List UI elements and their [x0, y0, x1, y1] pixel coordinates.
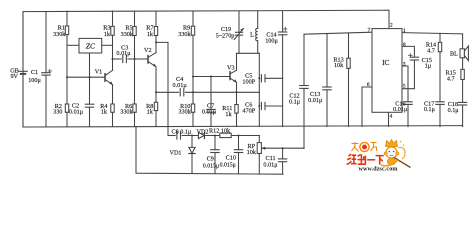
- svg-text:0.01μ: 0.01μ: [263, 162, 278, 169]
- svg-text:9V: 9V: [10, 73, 18, 80]
- resistor R2: [65, 77, 68, 126]
- resistor R7: [154, 11, 157, 53]
- svg-text:100μ: 100μ: [28, 77, 41, 84]
- label R5 330k: [121, 25, 134, 38]
- svg-text:0.01μ: 0.01μ: [173, 82, 188, 89]
- svg-text:V2: V2: [144, 47, 152, 54]
- svg-text:3: 3: [403, 61, 406, 67]
- resistor R14: [438, 33, 441, 101]
- svg-text:V1: V1: [95, 69, 103, 76]
- svg-text:1k: 1k: [225, 111, 232, 118]
- svg-text:1k: 1k: [101, 108, 108, 115]
- capacitor C5: [261, 75, 282, 82]
- svg-text:0.1μ: 0.1μ: [448, 107, 460, 114]
- svg-text:1μ: 1μ: [425, 63, 432, 70]
- IC U1 box: [372, 29, 402, 113]
- label C5 100P: [242, 72, 255, 85]
- resistor R13: [347, 33, 350, 127]
- label C6 470P: [242, 101, 255, 114]
- label C19 5~270p: [216, 26, 235, 39]
- svg-text:VD1: VD1: [170, 149, 182, 156]
- capacitor C6: [261, 102, 282, 109]
- svg-text:330k: 330k: [53, 31, 66, 38]
- label C16 0.01u: [393, 100, 408, 113]
- svg-text:0.01μ: 0.01μ: [308, 97, 323, 104]
- resistor R11: [235, 82, 238, 126]
- capacitor C12: [300, 34, 308, 148]
- label R6 330k: [120, 103, 133, 116]
- label C17 0.1u: [424, 100, 436, 113]
- label R10 330k: [178, 103, 191, 116]
- svg-text:1k: 1k: [147, 108, 154, 115]
- variable capacitor C19: [234, 11, 243, 53]
- label C2 0.01u: [69, 102, 84, 115]
- detector wire C8 VD2 R12: [168, 132, 198, 139]
- wire top supply rail: [23, 10, 389, 127]
- label C13 0.01u: [308, 91, 323, 104]
- label C9 0.015u: [203, 156, 219, 170]
- svg-text:0.015μ: 0.015μ: [203, 163, 219, 169]
- potentiometer RP: [257, 136, 266, 174]
- capacitor C14: [278, 11, 287, 127]
- resistor R9: [191, 11, 194, 77]
- svg-text:330k: 330k: [178, 31, 191, 38]
- resistor R10: [191, 77, 194, 127]
- svg-text:0.01μ: 0.01μ: [116, 50, 131, 57]
- label R11 1k: [222, 105, 232, 118]
- svg-text:C9: C9: [207, 156, 214, 163]
- label C10 0.015u: [220, 155, 236, 169]
- svg-text:0.015μ: 0.015μ: [220, 163, 236, 169]
- svg-text:L: L: [250, 32, 254, 39]
- wire tank bottom node: [237, 52, 260, 54]
- label C7 0.01u: [202, 102, 217, 115]
- capacitor C9: [211, 136, 219, 174]
- transistor V2: [135, 53, 157, 67]
- wire lower detector ground rail: [136, 127, 283, 175]
- svg-text:4: 4: [390, 113, 393, 119]
- svg-text:C8 0.1μ: C8 0.1μ: [172, 129, 193, 136]
- svg-text:100P: 100P: [242, 78, 255, 85]
- capacitor C3: [113, 55, 135, 62]
- svg-text:470P: 470P: [242, 108, 255, 115]
- resistor R8: [154, 67, 157, 127]
- wire RP wiper to C12 line: [266, 147, 304, 149]
- capacitor C10: [234, 136, 242, 174]
- svg-text:1k: 1k: [147, 31, 154, 38]
- resistor R15: [461, 69, 464, 102]
- svg-text:5: 5: [403, 84, 406, 90]
- wire V2 collector branch: [156, 42, 168, 135]
- capacitor C1: [42, 11, 52, 127]
- label R14 4.7: [426, 41, 436, 54]
- svg-text:0.1μ: 0.1μ: [424, 106, 436, 113]
- label C14 100u: [265, 31, 278, 44]
- block ZC: [67, 38, 113, 77]
- resistor R12: [220, 133, 259, 137]
- svg-text:7: 7: [367, 27, 370, 33]
- junction dots: [66, 41, 284, 149]
- label C18 0.1u: [448, 101, 460, 114]
- speaker BL: [460, 34, 468, 70]
- resistor R4: [111, 85, 114, 127]
- svg-text:1: 1: [403, 28, 406, 34]
- svg-text:10k: 10k: [247, 149, 257, 156]
- wire IC pin 5: [402, 60, 414, 89]
- label C3 0.01u: [116, 44, 131, 57]
- wire IC pin 3: [402, 66, 408, 102]
- resistor R3: [111, 11, 114, 70]
- svg-text:1k: 1k: [104, 31, 111, 38]
- svg-text:330k: 330k: [121, 31, 134, 38]
- label R2 330: [53, 103, 62, 116]
- svg-text:2: 2: [390, 22, 393, 28]
- svg-text:4.7: 4.7: [447, 76, 455, 83]
- watermark dzsc logo: [347, 140, 411, 173]
- inductor L: [256, 11, 258, 53]
- wire main ground rail: [23, 126, 463, 127]
- svg-text:C1: C1: [31, 69, 38, 76]
- svg-text:5~270p: 5~270p: [216, 32, 235, 39]
- svg-text:0.01μ: 0.01μ: [393, 106, 408, 113]
- wire IC pin 1 to output: [402, 33, 463, 34]
- label R9 330k: [178, 25, 191, 38]
- svg-text:6: 6: [367, 82, 370, 88]
- transistor V3: [193, 53, 237, 82]
- svg-text:10k: 10k: [334, 62, 344, 69]
- svg-text:C10: C10: [226, 155, 236, 162]
- label GB 9V: [10, 68, 19, 81]
- label R3 1k: [103, 25, 111, 38]
- svg-text:4.7: 4.7: [427, 47, 435, 54]
- svg-text:100μ: 100μ: [265, 37, 278, 44]
- svg-text:IC: IC: [382, 58, 389, 67]
- capacitor C16: [404, 102, 412, 127]
- label R13 10k: [333, 56, 344, 69]
- capacitor C17: [436, 102, 444, 127]
- wire IC pin 8: [402, 46, 414, 57]
- label R15 4.7: [446, 70, 456, 83]
- label R4 1k: [100, 103, 108, 116]
- label C4 0.01u: [173, 76, 188, 89]
- wire feedback node: [258, 53, 260, 126]
- resistor R1: [65, 11, 68, 77]
- svg-text:www.dzsc.com: www.dzsc.com: [358, 166, 397, 172]
- label C1 100u: [28, 69, 41, 84]
- svg-text:330k: 330k: [120, 108, 133, 115]
- svg-text:BL: BL: [450, 50, 458, 57]
- diode VD1: [189, 136, 195, 174]
- resistor R6: [133, 59, 136, 127]
- diode VD2: [198, 132, 219, 138]
- capacitor C11: [278, 148, 286, 173]
- label C11 0.01u: [263, 155, 278, 168]
- svg-text:0.01μ: 0.01μ: [69, 109, 84, 116]
- label R1 330k: [53, 25, 66, 38]
- capacitor C4: [156, 89, 259, 96]
- label R7 1k: [146, 25, 154, 38]
- capacitor C7: [207, 77, 215, 127]
- label C15 1u: [422, 57, 432, 70]
- mascot monkey: [381, 140, 411, 168]
- label RP 10k: [247, 143, 257, 156]
- svg-text:8: 8: [403, 42, 406, 48]
- label C12 0.1u: [289, 93, 301, 106]
- capacitor C18: [458, 102, 466, 126]
- svg-text:V3: V3: [227, 65, 235, 72]
- svg-text:330k: 330k: [178, 108, 191, 115]
- label R8 1k: [146, 103, 154, 116]
- svg-text:R12 10k: R12 10k: [209, 127, 231, 134]
- svg-text:0.01μ: 0.01μ: [202, 108, 217, 115]
- capacitor C15: [409, 54, 419, 60]
- svg-text:330: 330: [53, 108, 62, 115]
- capacitor C13: [323, 34, 331, 127]
- capacitor C2: [85, 77, 93, 126]
- transistor V1: [67, 70, 113, 84]
- svg-text:VD2: VD2: [197, 129, 209, 136]
- svg-text:0.1μ: 0.1μ: [289, 99, 301, 106]
- resistor R5: [133, 11, 136, 59]
- wire IC pin 6: [362, 87, 372, 127]
- wire step rail to IC pin 7: [304, 32, 372, 34]
- battery GB: [19, 12, 27, 127]
- wire IC pin 4: [388, 112, 390, 126]
- watermark text weiku yixia: [347, 154, 384, 165]
- svg-text:ZC: ZC: [86, 41, 96, 50]
